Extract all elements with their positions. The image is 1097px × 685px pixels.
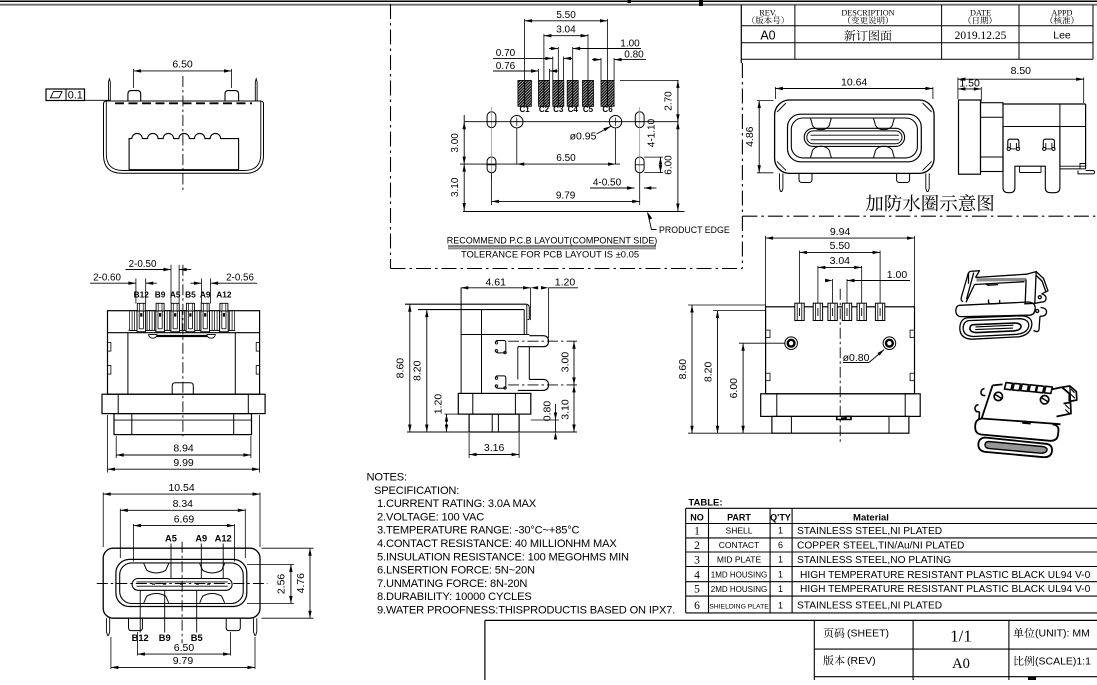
svg-text:1: 1 [778, 600, 783, 610]
rear inner housing sides [127, 333, 129, 395]
svg-text:3.10: 3.10 [560, 399, 572, 420]
svg-text:1.20: 1.20 [555, 277, 576, 289]
svg-text:STAINLESS STEEL,NI PLATED: STAINLESS STEEL,NI PLATED [797, 526, 942, 537]
svg-text:APPD: APPD [1052, 9, 1073, 18]
dim 3.00 right [573, 341, 575, 385]
dim 9.99 [107, 415, 109, 473]
wp corner ticks [777, 103, 786, 112]
svg-text:0.80: 0.80 [624, 49, 644, 60]
svg-text:0.76: 0.76 [496, 61, 516, 72]
svg-text:5.INSULATION RESISTANCE: 100 M: 5.INSULATION RESISTANCE: 100 MEGOHMS MIN [377, 551, 629, 563]
svg-text:(SCALE)1:1: (SCALE)1:1 [1035, 656, 1091, 668]
wps legs [1003, 127, 1060, 193]
svg-text:(REV): (REV) [847, 655, 876, 667]
wps front ring block [959, 100, 981, 174]
svg-text:DESCRIPTION: DESCRIPTION [841, 9, 894, 18]
shell inner wall lines [106, 101, 260, 171]
pad dims extension lines [524, 19, 526, 80]
svg-text:SPECIFICATION:: SPECIFICATION: [374, 485, 459, 497]
svg-text:4.76: 4.76 [295, 573, 307, 594]
svg-text:8.DURABILITY: 10000 CYCLES: 8.DURABILITY: 10000 CYCLES [377, 591, 532, 603]
dim 1.00 [573, 48, 641, 50]
wp ring3 [791, 118, 917, 158]
left peg [128, 91, 141, 101]
dim 1.20 top [548, 288, 550, 338]
rear dark mid line [152, 335, 212, 337]
svg-text:4.CONTACT RESISTANCE: 40 MILLI: 4.CONTACT RESISTANCE: 40 MILLIONHM MAX [377, 538, 617, 550]
svg-text:3.04: 3.04 [556, 25, 576, 36]
dim 8.20 left [426, 310, 428, 432]
svg-text:10.54: 10.54 [168, 482, 194, 494]
wps inner step between legs [1019, 166, 1021, 172]
mounting holes [511, 116, 523, 128]
svg-text:PART: PART [727, 512, 751, 522]
dim 8.94 [115, 436, 117, 458]
dim 8.20 b [713, 310, 766, 312]
dim 9.79 bl [110, 637, 112, 669]
comb of contacts [129, 311, 131, 330]
product edge line [463, 211, 685, 213]
svg-text:6: 6 [778, 540, 783, 550]
svg-text:NO: NO [690, 512, 704, 522]
svg-text:TABLE:: TABLE: [688, 498, 722, 509]
dim 0.70 [493, 57, 553, 59]
dim 4.61 [530, 288, 532, 320]
caption: waterproof ring illustration [866, 194, 994, 211]
dim 6.00 b [739, 342, 785, 344]
svg-text:3.00: 3.00 [560, 352, 572, 373]
dim 8.34 [119, 509, 121, 558]
dim 5.50 b [799, 251, 801, 304]
svg-text:CONTACT: CONTACT [719, 540, 759, 550]
bl centerlines [97, 583, 268, 585]
view A outer shell [104, 101, 264, 173]
dim 5.50 [525, 20, 608, 22]
rear inner band bottom line [129, 330, 236, 332]
svg-text:6.50: 6.50 [172, 59, 193, 71]
six pins in band [137, 311, 146, 332]
dim 2-0.60 [135, 279, 137, 304]
left edge pin [109, 79, 111, 101]
svg-text:B12: B12 [132, 633, 149, 643]
right peg [225, 91, 239, 101]
svg-text:1.00: 1.00 [887, 269, 908, 281]
svg-text:C5: C5 [583, 105, 594, 114]
svg-text:B5: B5 [185, 290, 196, 300]
bl ring3 [120, 563, 244, 604]
svg-text:0.1: 0.1 [68, 90, 83, 102]
dim 0.76 [493, 70, 539, 72]
title block [485, 619, 1097, 621]
svg-text:1/1: 1/1 [950, 627, 972, 646]
side lower block [469, 414, 519, 432]
svg-text:5: 5 [694, 584, 700, 596]
wps right bottom and foot [1060, 165, 1086, 167]
wp ring2 [788, 114, 922, 162]
svg-text:3.TEMPERATURE RANGE: -30°C~+85: 3.TEMPERATURE RANGE: -30°C~+85°C [377, 525, 580, 537]
dim 10.54 [102, 493, 104, 548]
bottom view body [766, 307, 915, 394]
svg-text:B9: B9 [159, 633, 171, 643]
svg-text:2MD HOUSING: 2MD HOUSING [711, 585, 767, 594]
svg-text:4.86: 4.86 [744, 126, 756, 147]
contact clips [496, 341, 506, 353]
wp tongue [807, 131, 902, 144]
bottom line ext [407, 431, 469, 433]
svg-text:(UNIT): MM: (UNIT): MM [1035, 628, 1090, 640]
left dims 3.00 / 3.10 [463, 115, 465, 212]
wp latch bumps [811, 118, 832, 129]
separator dash-dot line under waterproof views [742, 215, 1097, 217]
svg-text:8.60: 8.60 [395, 358, 407, 379]
upper beak [518, 336, 549, 347]
svg-text:4-1.10: 4-1.10 [647, 118, 658, 147]
svg-text:STAINLESS STEEL,NI PLATED: STAINLESS STEEL,NI PLATED [797, 601, 942, 612]
frame tick marks [628, 0, 632, 3]
body side notches [766, 330, 770, 338]
dim 4.76 [262, 547, 314, 549]
side flange [458, 393, 531, 414]
svg-text:8.94: 8.94 [173, 443, 194, 455]
svg-text:5.50: 5.50 [556, 10, 576, 21]
revision table [740, 5, 742, 63]
dim line 6.50 row [460, 163, 620, 165]
svg-text:2019.12.25: 2019.12.25 [955, 30, 1007, 42]
bottom view pins [795, 303, 804, 320]
svg-text:A0: A0 [760, 29, 775, 43]
rear centerline [182, 265, 184, 437]
svg-text:9.79: 9.79 [556, 190, 576, 201]
beak centerlines [508, 340, 577, 342]
svg-text:1: 1 [778, 584, 783, 594]
svg-text:9.99: 9.99 [173, 457, 194, 469]
svg-text:1.50: 1.50 [959, 78, 980, 90]
svg-text:PRODUCT EDGE: PRODUCT EDGE [659, 225, 730, 235]
svg-text:5.50: 5.50 [830, 240, 851, 252]
dim 4.86 [757, 100, 774, 102]
svg-text:Lee: Lee [1053, 30, 1071, 42]
dim 9.79 [491, 173, 493, 205]
right edge pin [255, 79, 257, 101]
bottom view holes [785, 337, 798, 350]
view A centerline [182, 76, 184, 190]
svg-text:1: 1 [778, 570, 783, 580]
svg-text:2.VOLTAGE: 100 VAC: 2.VOLTAGE: 100 VAC [377, 511, 484, 523]
dim 6.50 bl [136, 632, 138, 656]
svg-text:A9: A9 [195, 534, 207, 544]
3d view2 [975, 383, 1077, 458]
svg-text:MID PLATE: MID PLATE [717, 555, 762, 565]
svg-text:DATE: DATE [970, 9, 991, 18]
svg-text:8.20: 8.20 [412, 360, 424, 381]
svg-text:0.70: 0.70 [496, 48, 516, 59]
inner housing crown [129, 133, 239, 169]
side view top plate [405, 303, 527, 305]
wp tongue slot [804, 128, 904, 146]
svg-text:6: 6 [694, 600, 700, 612]
svg-text:SHIELDING PLATE: SHIELDING PLATE [709, 603, 769, 610]
bl tongue [132, 579, 232, 591]
side clip marks [108, 343, 111, 352]
bl ring2 [116, 559, 247, 606]
svg-text:2.70: 2.70 [664, 91, 675, 111]
svg-text:2-0.56: 2-0.56 [226, 272, 254, 283]
product edge label + leader [648, 212, 653, 220]
svg-text:RECOMMEND P.C.B LAYOUT(COMPO: RECOMMEND P.C.B LAYOUT(COMPONENT SIDE) [447, 236, 658, 246]
dim 9.94 [765, 236, 767, 307]
dim 1.00 b [832, 279, 834, 303]
right dims 2.70 / 6.00 [677, 80, 679, 211]
svg-text:ø0.95: ø0.95 [570, 131, 597, 143]
bottom flange [761, 394, 921, 417]
rear lower block [114, 414, 252, 435]
PCB pads C1-C6 (hatched) [518, 80, 532, 106]
svg-text:C6: C6 [602, 105, 613, 114]
dim 3.04 b [817, 266, 819, 303]
3d view1 [956, 271, 1048, 340]
svg-text:6.50: 6.50 [556, 153, 576, 164]
sheet frame top lines [0, 0, 1097, 2]
dim 0.80 [592, 59, 601, 61]
dim 8.60 b [688, 304, 766, 306]
bottom view centerline [839, 289, 841, 443]
shield tab detail [837, 416, 851, 419]
svg-text:6.LNSERTION FORCE: 5N~20N: 6.LNSERTION FORCE: 5N~20N [377, 565, 535, 577]
svg-text:3: 3 [694, 554, 700, 566]
svg-text:3.00: 3.00 [450, 133, 461, 153]
bl latch springs [144, 564, 169, 573]
svg-text:REV.: REV. [759, 9, 776, 18]
svg-text:1: 1 [778, 555, 783, 565]
svg-text:B9: B9 [155, 290, 166, 300]
svg-text:TOLERANCE FOR PCB LAYOUT I: TOLERANCE FOR PCB LAYOUT IS ±0.05 [461, 249, 639, 260]
dim 2.56 [247, 563, 294, 565]
rear flange [102, 394, 265, 413]
svg-text:4: 4 [694, 569, 700, 581]
PCB layout dash-dot border [390, 4, 392, 269]
bottom lower block [772, 416, 909, 433]
svg-text:C1: C1 [520, 105, 531, 114]
svg-text:9.94: 9.94 [830, 226, 851, 238]
svg-text:8.34: 8.34 [173, 498, 194, 510]
dim 4-0.50 [590, 187, 628, 189]
svg-text:(SHEET): (SHEET) [847, 628, 889, 640]
svg-text:4-0.50: 4-0.50 [593, 178, 622, 189]
svg-text:2-0.60: 2-0.60 [93, 272, 121, 283]
svg-text:NOTES:: NOTES: [367, 472, 407, 484]
six pin tails [137, 303, 145, 311]
svg-text:C3: C3 [553, 105, 564, 114]
svg-text:0.80: 0.80 [541, 401, 553, 422]
svg-text:9.WATER PROOFNESS:THISPRODUCTI: 9.WATER PROOFNESS:THISPRODUCTIS BASED ON… [377, 605, 675, 617]
svg-text:SHELL: SHELL [726, 526, 753, 536]
svg-text:1.CURRENT RATING: 3.0A MAX: 1.CURRENT RATING: 3.0A MAX [377, 498, 537, 510]
dim 3.10 right [573, 385, 575, 432]
lower beak [518, 379, 549, 390]
svg-text:7.UNMATING FORCE: 8N-20N: 7.UNMATING FORCE: 8N-20N [377, 578, 527, 590]
dim 8.60 left [409, 304, 411, 432]
svg-text:8.50: 8.50 [1011, 65, 1032, 77]
svg-text:A12: A12 [215, 534, 232, 544]
top dashed pin row [115, 102, 252, 104]
dim 10.64 [774, 87, 776, 99]
svg-text:10.64: 10.64 [841, 76, 867, 88]
rear view body [108, 311, 260, 395]
dim 6.50 view A [133, 69, 135, 88]
svg-text:A0: A0 [952, 656, 970, 672]
oval slots [487, 112, 496, 128]
dim 6.69 [133, 524, 135, 562]
flatness callout [46, 89, 85, 101]
svg-text:2-0.50: 2-0.50 [129, 259, 157, 270]
svg-text:2.56: 2.56 [276, 574, 288, 595]
shell back between beaks [528, 347, 530, 380]
wp front outer shell [775, 100, 935, 173]
center tab [172, 383, 193, 394]
dim 3.04 [544, 35, 588, 37]
dim 1.50 [980, 87, 982, 102]
svg-text:A12: A12 [216, 290, 232, 300]
svg-text:HIGH TEMPERATURE RESISTANT: HIGH TEMPERATURE RESISTANT PLASTIC BLACK… [800, 584, 1091, 595]
svg-text:COPPER STEEL,TIN/Au/NI PLATE: COPPER STEEL,TIN/Au/NI PLATED [797, 541, 964, 552]
svg-text:6.50: 6.50 [174, 642, 195, 654]
bl outer shell [103, 548, 260, 618]
wps block2 [981, 103, 1004, 172]
svg-text:4.61: 4.61 [485, 277, 506, 289]
dim 1.20 lower-left [445, 413, 459, 415]
wps contacts [1008, 139, 1019, 148]
dim 4-1.10 [644, 156, 663, 158]
svg-text:STAINLESS STEEL,NO PLATING: STAINLESS STEEL,NO PLATING [797, 555, 951, 566]
svg-text:HIGH TEMPERATURE RESISTANT: HIGH TEMPERATURE RESISTANT PLASTIC BLACK… [800, 570, 1091, 581]
dim 3.16 [468, 433, 470, 458]
svg-text:8.60: 8.60 [677, 359, 689, 380]
svg-text:1: 1 [778, 526, 783, 536]
svg-text:6.00: 6.00 [728, 378, 740, 399]
wps main body [1003, 103, 1086, 105]
circles-line [464, 121, 679, 123]
svg-text:3.04: 3.04 [830, 255, 851, 267]
side view upper body [460, 288, 462, 394]
svg-text:1MD HOUSING: 1MD HOUSING [711, 571, 767, 580]
svg-text:9.79: 9.79 [173, 655, 194, 667]
rear notches [149, 335, 157, 339]
dim 0.80 right [531, 419, 559, 421]
svg-text:2: 2 [694, 540, 700, 552]
svg-text:Q'TY: Q'TY [770, 512, 791, 522]
svg-text:C4: C4 [568, 105, 579, 114]
dim 2-0.56 [200, 279, 202, 304]
svg-text:3.10: 3.10 [450, 177, 461, 197]
svg-text:Material: Material [853, 512, 889, 523]
svg-text:6.00: 6.00 [664, 155, 675, 175]
svg-text:6.69: 6.69 [174, 513, 195, 525]
svg-text:1.00: 1.00 [620, 38, 640, 49]
svg-text:8.20: 8.20 [702, 362, 714, 383]
bottom ext line [688, 432, 772, 434]
svg-text:1.20: 1.20 [433, 394, 445, 415]
svg-text:3.16: 3.16 [484, 442, 505, 454]
dim 8.50 [957, 78, 959, 100]
svg-text:1: 1 [694, 526, 700, 538]
wp legs [780, 173, 783, 191]
dim 2-0.50 [170, 265, 172, 304]
bl legs [106, 618, 109, 635]
svg-text:C2: C2 [539, 105, 550, 114]
svg-text:A5: A5 [165, 534, 177, 544]
